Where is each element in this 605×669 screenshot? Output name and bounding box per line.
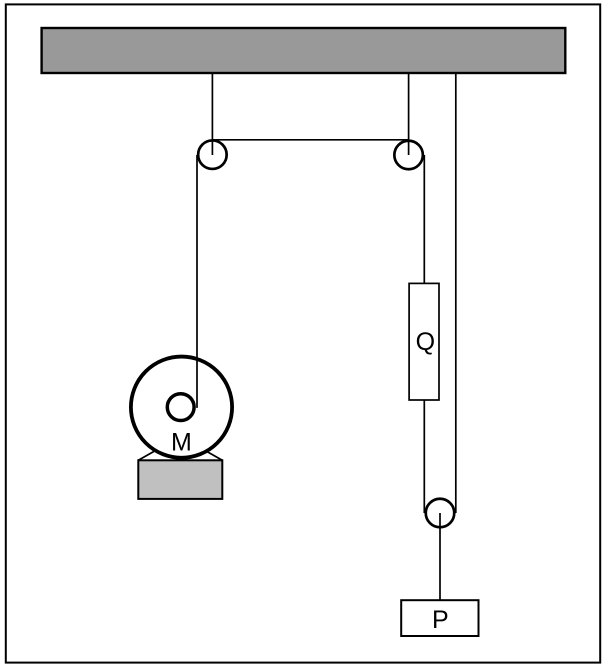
wire: right pulley support rod (408, 73, 410, 156)
ceiling bar (42, 28, 566, 73)
wire: long right string from ceiling to bottom pulley (455, 73, 457, 514)
wheel M axle circle (167, 394, 194, 421)
wire: horizontal string over pulleys (212, 139, 408, 141)
weight P box (401, 600, 478, 636)
wheel M outer circle (131, 357, 232, 458)
pulley right (ceiling) (394, 141, 423, 170)
block under wheel (gray stand) (138, 460, 222, 499)
wedge right diagonal (180, 437, 222, 461)
svg-text:Q: Q (416, 328, 435, 356)
wire: rod bottom pulley to weight P (439, 513, 441, 600)
pulley bottom (movable) (426, 499, 455, 528)
pulley left (ceiling) (198, 140, 227, 169)
wedge left diagonal (138, 437, 180, 461)
spring balance Q box (409, 283, 439, 400)
wire: left pulley support rod (211, 73, 213, 156)
wire: string right pulley to Q (423, 155, 425, 283)
svg-text:M: M (171, 428, 192, 456)
svg-text:P: P (432, 606, 449, 634)
wire: string Q to bottom pulley (423, 400, 425, 513)
wire: string left pulley down to wheel axle (196, 155, 198, 408)
